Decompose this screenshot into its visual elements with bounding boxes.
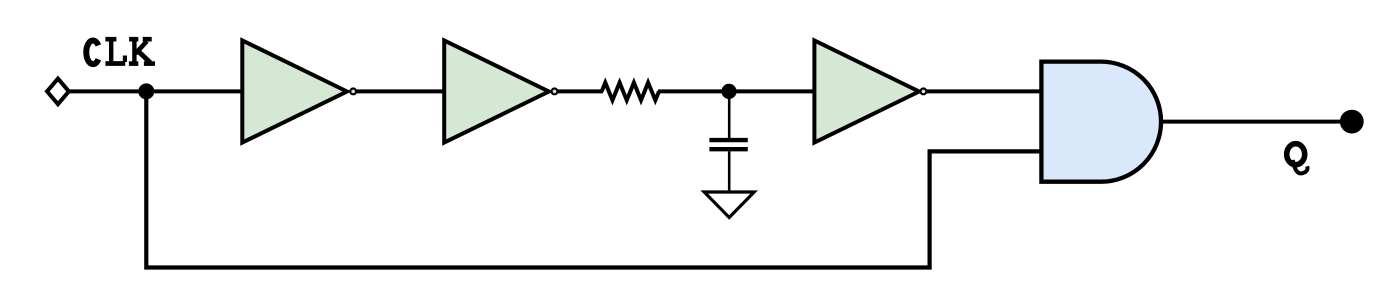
AND gate U4 (1041, 62, 1161, 182)
node junction J1 (138, 83, 154, 99)
wire U4 output to Q terminal (1161, 120, 1342, 124)
node CLK label (typewriter-style glyph paths) (86, 39, 155, 64)
port CLK (input diamond) (47, 79, 69, 105)
wire U3 to AND U4 upper input (927, 89, 1042, 93)
bubble U3 (921, 89, 927, 95)
wire R1 to inverter U3 input (658, 89, 816, 93)
letter L (105, 37, 116, 42)
letter K (129, 37, 138, 42)
node junction J2 (721, 84, 736, 99)
bubble U2 (552, 89, 558, 95)
bubble U1 (350, 89, 356, 95)
capacitor C1 (709, 138, 747, 142)
wire C1 to ground (728, 151, 731, 191)
node Q label (typewriter-style glyph paths) (1287, 144, 1308, 174)
wire J2 to capacitor C1 (728, 95, 731, 139)
wire feedback (J1 down, across bottom, up to AND U4 lower input) (146, 91, 1041, 267)
letter C (86, 41, 98, 65)
wire U2 to resistor R1 (558, 89, 603, 93)
ground (704, 192, 754, 218)
resistor R1 (602, 83, 659, 101)
inverter U2 (444, 40, 549, 142)
wire U1 to U2 (357, 89, 447, 93)
inverter U1 (242, 40, 347, 142)
terminal Q (output dot) (1340, 110, 1364, 134)
inverter U3 (814, 40, 919, 142)
wire CLK to inverter U1 input (69, 89, 245, 93)
